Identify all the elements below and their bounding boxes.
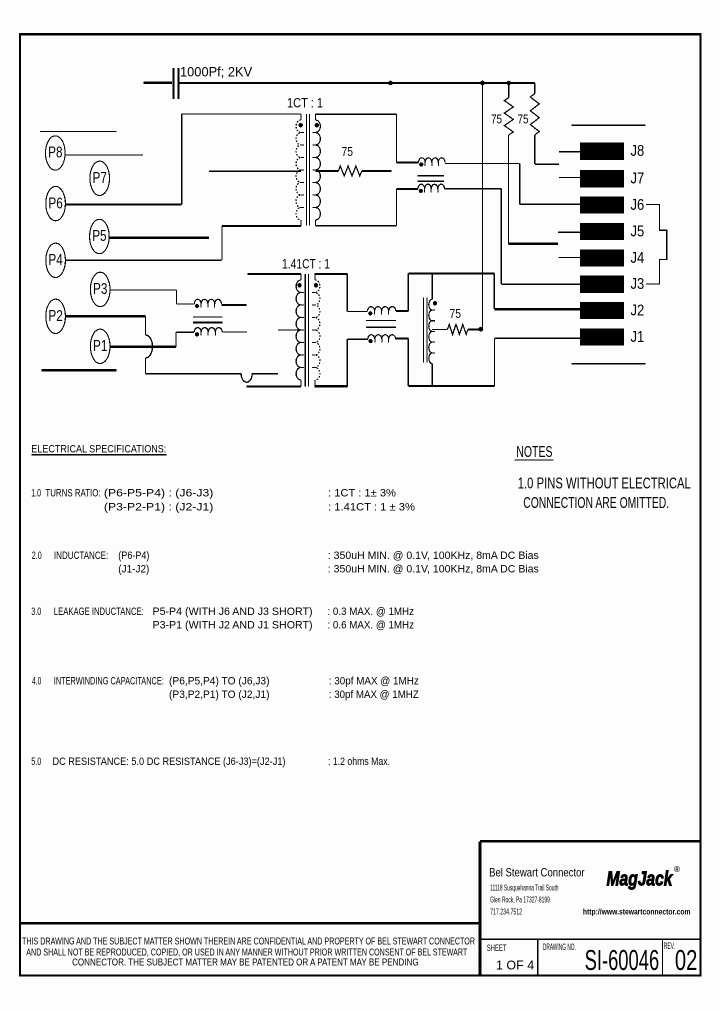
pin P3 [90, 272, 110, 306]
svg-text:5.0: 5.0 [31, 756, 41, 768]
resistor R4 75 [448, 324, 468, 334]
wire P5 lead [109, 237, 209, 239]
wire vertical to J1 [494, 338, 496, 386]
svg-text:1000Pf; 2KV: 1000Pf; 2KV [180, 65, 252, 80]
svg-text:75: 75 [450, 306, 462, 321]
wire L1b out stub [222, 331, 247, 333]
svg-text:02: 02 [675, 945, 698, 977]
wire L2b out [396, 338, 409, 340]
svg-text:CONNECTION ARE OMITTED.: CONNECTION ARE OMITTED. [523, 495, 669, 512]
svg-text:Bel Stewart Connector: Bel Stewart Connector [489, 866, 584, 880]
svg-text:SHEET: SHEET [487, 943, 507, 953]
svg-text:75: 75 [518, 112, 529, 127]
svg-text:J3: J3 [631, 276, 645, 293]
svg-text:11118 Susquehanna Trail South: 11118 Susquehanna Trail South [490, 883, 558, 892]
pad J1 [580, 328, 624, 345]
svg-text:P8: P8 [48, 145, 62, 162]
wire choke L3 upper in [397, 161, 419, 163]
svg-text:: 30pf MAX @ 1MHz: : 30pf MAX @ 1MHz [329, 676, 419, 688]
inductor L2a [368, 307, 396, 312]
connector outline above J8 [572, 124, 646, 126]
wire P3 jog down [175, 290, 177, 304]
pin P4 [46, 243, 66, 277]
phase dot L3b [419, 189, 423, 193]
svg-text:: 1.41CT : 1 ± 3%: : 1.41CT : 1 ± 3% [328, 502, 415, 514]
svg-text:CONNECTOR. THE SUBJECT MATTER: CONNECTOR. THE SUBJECT MATTER MAY BE PAT… [72, 958, 419, 969]
svg-text:P6: P6 [48, 195, 62, 212]
svg-text:TURNS RATIO:: TURNS RATIO: [45, 488, 100, 500]
svg-text:INTERWINDING CAPACITANCE:: INTERWINDING CAPACITANCE: [54, 676, 164, 688]
pin P5 [90, 219, 110, 253]
wire T2 bottom-right [315, 385, 348, 387]
svg-text:J1: J1 [631, 329, 645, 346]
svg-text:: 0.6 MAX. @ 1MHz: : 0.6 MAX. @ 1MHz [328, 620, 415, 632]
svg-text:NOTES: NOTES [516, 444, 552, 461]
svg-text:4.0: 4.0 [32, 676, 41, 688]
wire stub below P1 [41, 369, 116, 371]
wire T1 bottom-right [316, 225, 397, 227]
wire P6 lead [65, 203, 182, 205]
phase dot L3a [419, 162, 423, 166]
wire top rail [178, 82, 535, 84]
connector outline below J1 [572, 363, 646, 365]
svg-text:: 1CT : 1± 3%: : 1CT : 1± 3% [328, 488, 396, 500]
inductor L1b [194, 328, 222, 333]
svg-text:75: 75 [491, 112, 502, 127]
wire J1 [495, 337, 580, 339]
svg-text:: 30pf MAX @ 1MHZ: : 30pf MAX @ 1MHZ [329, 689, 419, 701]
svg-text:(P3,P2,P1) TO (J2,J1): (P3,P2,P1) TO (J2,J1) [169, 689, 270, 701]
wire J7 stub [559, 177, 580, 179]
inductor L1a [194, 299, 221, 304]
svg-text:1 OF 4: 1 OF 4 [496, 957, 534, 972]
svg-text:(J1-J2): (J1-J2) [118, 564, 149, 576]
svg-text:(P6-P5-P4) : (J6-J3): (P6-P5-P4) : (J6-J3) [104, 488, 213, 500]
pad J6 [580, 197, 624, 214]
bracket J6 to J3 [646, 205, 667, 285]
wire T1 centre-tap left stub [209, 170, 301, 172]
wire T2 top-right vertical [346, 274, 348, 311]
svg-text:MagJack: MagJack [607, 868, 674, 891]
wire T1 right vertical upper [396, 114, 398, 162]
wire R2 bottom lead vertical [534, 135, 536, 164]
choke L3 core line 2 [418, 180, 445, 182]
wire vertical to J2 [493, 273, 495, 309]
svg-text:P5-P4 (WITH J6 AND J3 SHORT): P5-P4 (WITH J6 AND J3 SHORT) [153, 606, 313, 618]
svg-text:J4: J4 [631, 250, 645, 267]
svg-text:LEAKAGE INDUCTANCE:: LEAKAGE INDUCTANCE: [54, 606, 144, 618]
resistor R3 75 [338, 166, 361, 176]
wire T3 left vertical upper [407, 273, 409, 311]
pin P7 [90, 161, 110, 195]
pad J2 [580, 302, 624, 319]
wire T1 top-left [182, 113, 301, 115]
svg-text:INDUCTANCE:: INDUCTANCE: [54, 550, 108, 562]
svg-text:Glen Rock, Pa 17327-8199: Glen Rock, Pa 17327-8199 [490, 896, 550, 905]
wire capacitor left lead [143, 82, 172, 84]
transformer T1 [296, 114, 320, 226]
choke L2 core line 1 [366, 319, 396, 321]
svg-text:P3-P1 (WITH J2 AND J1 SHORT): P3-P1 (WITH J2 AND J1 SHORT) [153, 620, 313, 632]
svg-text:3.0: 3.0 [31, 606, 41, 618]
wire R1 lead to J5/J4 column [509, 243, 558, 245]
svg-text:DC RESISTANCE: 5.0 DC RESISTAN: DC RESISTANCE: 5.0 DC RESISTANCE (J6-J3)… [53, 756, 286, 768]
svg-text:http://www.stewartconnector.co: http://www.stewartconnector.com [583, 908, 691, 917]
svg-text:2.0: 2.0 [32, 550, 42, 562]
svg-text:: 350uH MIN. @ 0.1V, 100KHz,: : 350uH MIN. @ 0.1V, 100KHz, 8mA DC Bias [328, 550, 539, 562]
title block outline [480, 840, 701, 843]
wire J8 stub [559, 151, 580, 153]
wire T2 bottom-right vertical [346, 339, 348, 386]
resistor R2 75 [534, 83, 536, 94]
wire T1 right vertical lower [396, 189, 398, 226]
wire L2a out [396, 310, 409, 312]
pad J5 [580, 223, 624, 240]
wire vertical drop to J3 [500, 189, 502, 285]
wire T3 box top [408, 272, 494, 274]
svg-text:75: 75 [342, 144, 354, 159]
transformer T3 [424, 273, 438, 386]
wire T1 centre-tap right [316, 170, 339, 172]
svg-text:J5: J5 [631, 223, 645, 240]
junction R4 to rail vertical [479, 327, 484, 332]
svg-text:ELECTRICAL SPECIFICATIONS:: ELECTRICAL SPECIFICATIONS: [31, 443, 166, 455]
svg-text:P4: P4 [48, 252, 63, 269]
phase dot L2a [368, 311, 372, 315]
svg-text:: 350uH MIN. @ 0.1V, 100KHz, 8: : 350uH MIN. @ 0.1V, 100KHz, 8mA DC Bias [328, 564, 539, 576]
wire P2 bottom run with hop [146, 373, 242, 375]
phase dot L2b [369, 339, 373, 343]
svg-text:1CT : 1: 1CT : 1 [287, 96, 323, 111]
wire P2 lead [65, 315, 145, 317]
pin P8 [46, 136, 66, 170]
svg-text:J7: J7 [631, 171, 645, 188]
wire P3 lead [110, 289, 177, 291]
wire T2 centre-tap left stub [278, 329, 301, 331]
capacitor C1 1000Pf 2KV [173, 68, 175, 99]
svg-text:P2: P2 [48, 308, 62, 325]
svg-text:REV.: REV. [664, 941, 675, 951]
svg-text:J8: J8 [631, 143, 645, 160]
resistor R1 75 [508, 83, 510, 98]
wire T1 top-right [316, 113, 397, 115]
svg-text:(P3-P2-P1) : (J2-J1): (P3-P2-P1) : (J2-J1) [104, 502, 213, 514]
svg-text:: 0.3 MAX. @ 1MHz: : 0.3 MAX. @ 1MHz [328, 606, 415, 618]
choke L1 core line 2 [193, 322, 223, 324]
svg-text:DRAWING NO.: DRAWING NO. [543, 942, 576, 952]
choke L3 core line 1 [418, 175, 445, 177]
choke L1 core line 1 [193, 316, 223, 318]
wire J6 [520, 203, 580, 205]
wire J2 [494, 308, 580, 310]
wire L1a out stub [222, 304, 247, 306]
junction on top rail [388, 81, 393, 86]
wire R4 right lead [468, 328, 479, 330]
inductor L2b [368, 335, 396, 339]
svg-text:P5: P5 [92, 228, 106, 245]
wire T2 bottom-left [247, 385, 301, 387]
wire P6 vertical riser [181, 114, 183, 205]
wire choke L2 lower in [347, 338, 368, 340]
pad J4 [580, 249, 624, 266]
choke L2 core line 2 [366, 326, 396, 328]
wire T2 top-left [248, 273, 302, 275]
transformer T2 [296, 274, 320, 386]
wire R1 bottom lead vertical [508, 135, 510, 244]
pad J8 [580, 143, 624, 160]
svg-text:P1: P1 [93, 338, 107, 355]
wire J3 [501, 283, 580, 285]
wire long vertical rail to R4 junction [482, 83, 484, 329]
wire P2 vertical with hop over P1 lead [145, 316, 147, 335]
svg-text:: 1.2 ohms Max.: : 1.2 ohms Max. [328, 756, 390, 768]
wire choke L3 lower in [397, 188, 419, 190]
wire L3a out to J6 drop [445, 162, 519, 164]
pad J3 [580, 276, 624, 293]
svg-text:(P6-P4): (P6-P4) [118, 550, 149, 562]
svg-text:1.41CT : 1: 1.41CT : 1 [282, 256, 330, 271]
pin P6 [46, 186, 66, 220]
svg-text:J2: J2 [631, 303, 645, 320]
svg-text:717.234.7512: 717.234.7512 [490, 908, 522, 917]
wire choke L1 lower in [176, 331, 194, 333]
svg-text:P7: P7 [93, 170, 107, 187]
wire P1 lead [110, 346, 176, 348]
wire stub above P8 [40, 130, 116, 132]
wire T2 top-right [315, 273, 348, 275]
svg-text:P3: P3 [93, 281, 107, 298]
wire J4 stub [558, 257, 580, 259]
wire choke L1 upper in [176, 303, 194, 305]
svg-text:J6: J6 [631, 197, 645, 214]
wire T3 box bottom [408, 385, 494, 387]
phase dot L1b [195, 332, 199, 336]
junction top rail to R1 [507, 81, 512, 86]
svg-text:1.0: 1.0 [31, 488, 41, 500]
wire R3 right lead [362, 170, 392, 172]
svg-text:1.0 PINS WITHOUT ELECTRICAL: 1.0 PINS WITHOUT ELECTRICAL [518, 476, 691, 493]
wire P4 lead [65, 259, 221, 261]
wire R2 lead to J8/J7 column [535, 163, 559, 165]
wire T3 left vertical lower [407, 339, 409, 386]
wire P4 vertical riser [221, 226, 223, 260]
inductor L3b [418, 184, 444, 189]
wire T3 tap to R4 [432, 328, 447, 330]
phase dot L1a [195, 304, 199, 308]
svg-text:SI-60046: SI-60046 [585, 945, 660, 977]
pad J7 [580, 170, 624, 187]
wire T1 bottom-left [222, 225, 301, 227]
svg-text:(P6,P5,P4) TO (J6,J3): (P6,P5,P4) TO (J6,J3) [169, 676, 270, 688]
svg-text:THIS DRAWING AND THE SUBJECT M: THIS DRAWING AND THE SUBJECT MATTER SHOW… [22, 937, 475, 948]
wire J5 stub [558, 231, 580, 233]
wire choke L2 upper in [347, 310, 367, 312]
disclaimer box [20, 922, 481, 925]
wire L3b out to J3 drop [445, 188, 501, 190]
pin P1 [90, 329, 110, 363]
pin P2 [46, 299, 66, 333]
wire vertical drop to J6 [519, 163, 521, 204]
inductor L3a [419, 158, 445, 163]
wire P1 jog up [175, 332, 177, 347]
wire P8 lead [65, 154, 143, 156]
junction top rail to T3 tap vertical [480, 81, 485, 86]
svg-text:®: ® [674, 865, 680, 874]
